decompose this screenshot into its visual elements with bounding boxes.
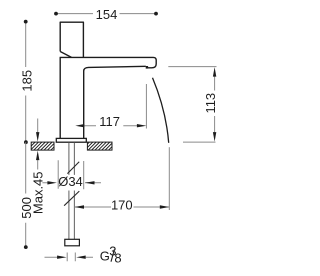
svg-text:8: 8 (114, 250, 121, 265)
svg-text:154: 154 (96, 7, 118, 22)
svg-text:Ø34: Ø34 (58, 174, 83, 189)
svg-text:185: 185 (20, 70, 35, 92)
svg-text:113: 113 (203, 93, 218, 114)
svg-text:117: 117 (99, 114, 120, 129)
svg-text:Max.45: Max.45 (31, 171, 46, 214)
svg-text:170: 170 (111, 197, 133, 212)
